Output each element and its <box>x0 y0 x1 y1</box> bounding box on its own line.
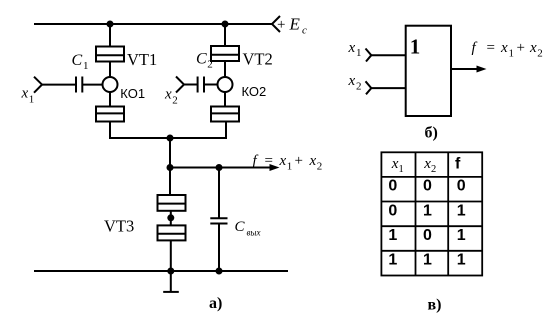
node VT3 mid <box>167 214 174 221</box>
svg-text:0: 0 <box>457 178 466 195</box>
terminal gate input x2 chevron <box>366 81 372 94</box>
capacitor Cvyh plates <box>210 217 227 219</box>
svg-text:в): в) <box>428 296 442 313</box>
wire VT3 to bottom bus <box>170 240 172 271</box>
svg-text:C: C <box>72 52 83 69</box>
capacitor C1 plates <box>75 77 77 93</box>
svg-text:а): а) <box>209 295 222 312</box>
wire output line <box>170 167 271 169</box>
wire VT2 to KO2 <box>224 61 226 77</box>
svg-text:+: + <box>277 17 285 33</box>
svg-text:1: 1 <box>423 202 432 219</box>
wire branch1 rail to VT1 <box>109 24 111 47</box>
terminal +Ec chevron <box>272 16 280 32</box>
svg-text:x: x <box>348 73 356 89</box>
wire VT3 mid <box>170 211 172 226</box>
wire branch2 rail to VT2 <box>224 24 226 46</box>
svg-text:1: 1 <box>509 48 515 60</box>
svg-text:VT2: VT2 <box>243 50 273 69</box>
svg-text:КО1: КО1 <box>120 86 145 101</box>
svg-text:2: 2 <box>431 164 436 175</box>
wire KO2 to lower junction 2 <box>224 92 226 107</box>
svg-text:1: 1 <box>457 202 466 219</box>
svg-text:2: 2 <box>356 80 362 92</box>
logic gate U1 box <box>406 26 451 116</box>
wire gate output <box>451 68 478 70</box>
svg-text:2: 2 <box>207 59 213 71</box>
wire C1 to KO1 <box>82 84 102 86</box>
svg-text:x: x <box>500 40 508 56</box>
svg-text:1: 1 <box>410 35 421 59</box>
svg-text:x: x <box>348 40 356 56</box>
transistor VT3 junction body lower <box>158 225 186 240</box>
wire bottom bus <box>34 270 288 272</box>
svg-text:2: 2 <box>317 161 323 173</box>
svg-text:C: C <box>235 219 246 235</box>
svg-text:x: x <box>529 40 537 56</box>
junction body lower branch 2 <box>211 107 239 122</box>
wire Cvyh vertical upper <box>218 168 220 219</box>
svg-text:2: 2 <box>537 48 543 60</box>
svg-text:1: 1 <box>457 227 466 244</box>
svg-text:1: 1 <box>356 47 362 59</box>
truth table grid <box>381 152 482 275</box>
wire gate input 2 <box>371 87 405 89</box>
svg-text:x: x <box>21 86 29 102</box>
svg-text:1: 1 <box>399 164 404 175</box>
node common emitter junction <box>167 135 174 142</box>
wire x1 to C1 <box>42 84 76 86</box>
wire Cvyh vertical lower <box>218 224 220 272</box>
node output junction <box>167 164 174 171</box>
node top rail junction branch 1 <box>107 21 114 28</box>
svg-text:1: 1 <box>457 252 466 269</box>
svg-text:1: 1 <box>287 161 293 173</box>
contact KO2 circle <box>218 77 233 92</box>
wire KO1 to lower junction 1 <box>109 92 111 107</box>
svg-text:x: x <box>309 153 317 169</box>
svg-text:f: f <box>455 156 461 173</box>
svg-text:1: 1 <box>83 60 89 72</box>
svg-text:x: x <box>164 87 172 103</box>
transistor VT1 junction body <box>96 47 124 62</box>
svg-text:x: x <box>279 153 287 169</box>
terminal gate input x1 chevron <box>366 49 372 62</box>
terminal input x1 chevron <box>34 77 42 93</box>
svg-text:2: 2 <box>172 95 178 107</box>
node top rail junction branch 2 <box>222 21 229 28</box>
svg-text:0: 0 <box>423 227 432 244</box>
svg-text:+: + <box>517 40 525 56</box>
wire gate input 1 <box>371 54 405 56</box>
node bus Cvyh junction <box>216 268 223 275</box>
node bus ground junction <box>167 268 174 275</box>
wire top supply rail <box>34 23 272 25</box>
svg-text:вых: вых <box>247 228 261 238</box>
svg-text:1: 1 <box>388 227 397 244</box>
transistor VT2 junction body <box>211 46 239 61</box>
wire VT1 to KO1 <box>109 62 111 78</box>
svg-text:0: 0 <box>423 178 432 195</box>
transistor VT3 junction body upper <box>158 195 186 211</box>
svg-text:1: 1 <box>388 252 397 269</box>
svg-text:0: 0 <box>388 202 397 219</box>
junction body lower branch 1 <box>96 107 124 122</box>
svg-text:1: 1 <box>423 252 432 269</box>
svg-text:б): б) <box>425 125 438 142</box>
svg-text:=: = <box>487 40 495 56</box>
svg-text:VT1: VT1 <box>127 50 157 69</box>
svg-text:КО2: КО2 <box>242 84 267 99</box>
arrow output f <box>270 164 280 171</box>
capacitor C2 plates <box>197 77 199 93</box>
svg-text:VT3: VT3 <box>104 217 134 236</box>
svg-text:C: C <box>196 51 207 68</box>
arrow gate output <box>477 66 487 73</box>
terminal input x2 chevron <box>176 77 184 93</box>
wire center vertical down <box>169 138 171 195</box>
svg-text:1: 1 <box>29 94 35 106</box>
ground <box>170 271 172 292</box>
svg-text:c: c <box>302 25 307 37</box>
wire branch bottoms to common node <box>110 122 226 139</box>
svg-text:E: E <box>289 15 301 34</box>
svg-text:0: 0 <box>388 178 397 195</box>
wire C2 to KO2 <box>204 84 218 86</box>
contact KO1 circle <box>103 77 118 92</box>
node Cvyh tap <box>216 164 223 171</box>
svg-text:+: + <box>295 153 303 169</box>
wire x2 to C2 <box>184 84 197 86</box>
svg-text:=: = <box>265 153 273 169</box>
